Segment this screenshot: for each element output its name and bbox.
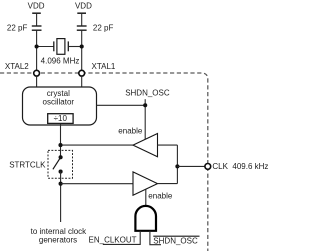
wire crystal right stub — [68, 46, 81, 48]
pin CLK circle — [205, 164, 211, 170]
crystal oscillator block text — [43, 89, 75, 106]
wire buffer U2 output to rail — [61, 144, 134, 146]
crystal Y1 left plate — [53, 41, 55, 51]
svg-text:VDD: VDD — [28, 1, 45, 10]
svg-text:CLK: CLK — [212, 162, 228, 171]
wire CLK to pin — [177, 165, 205, 167]
capacitor C2 plates — [77, 26, 87, 30]
svg-text:409.6 kHz: 409.6 kHz — [232, 162, 268, 171]
switch S1 top contact — [59, 155, 63, 159]
overbar for SHDN_OSC — [153, 235, 199, 237]
crystal Y1 right plate — [67, 41, 69, 51]
svg-text:22 pF: 22 pF — [93, 24, 114, 33]
wire oscillator SHDN to enable — [97, 99, 146, 139]
wire XTAL2 pin to oscillator block — [36, 76, 38, 87]
svg-text:enable: enable — [148, 191, 173, 200]
buffer U3 (points right) — [133, 172, 158, 195]
crystal Y1 body — [57, 39, 65, 55]
svg-text:22 pF: 22 pF — [7, 24, 28, 33]
svg-text:enable: enable — [118, 127, 143, 136]
svg-text:STRTCLK: STRTCLK — [9, 160, 46, 169]
node junction buffer U3 input tap — [59, 182, 63, 186]
wire label to internal clock generators — [31, 227, 88, 244]
switch S1 dashed enclosure — [48, 150, 73, 178]
pin XTAL1 circle — [79, 70, 85, 76]
svg-text:SHDN_OSC: SHDN_OSC — [125, 88, 170, 97]
svg-text:EN_CLKOUT: EN_CLKOUT — [89, 235, 137, 244]
svg-text:XTAL2: XTAL2 — [5, 62, 29, 71]
capacitor C1 plates — [32, 26, 42, 30]
svg-text:4.096 MHz: 4.096 MHz — [41, 56, 80, 65]
svg-text:SHDN_OSC: SHDN_OSC — [153, 236, 198, 245]
wire AND gate output to buffer U3 enable — [145, 190, 147, 207]
wire buffer U2 input — [158, 145, 178, 184]
divider block divide-by-10 — [48, 114, 73, 124]
wire C1 to XTAL2 pin — [36, 30, 38, 70]
node junction rail / buffer output — [58, 143, 62, 147]
svg-text:generators: generators — [39, 236, 77, 245]
AND gate G1 — [135, 206, 156, 231]
wire buffer U3 output — [158, 183, 178, 185]
node junction CLK tap — [175, 164, 179, 168]
crystal oscillator block U1 — [23, 87, 97, 125]
buffer U2 (points left) — [133, 134, 158, 157]
svg-text:VDD: VDD — [75, 1, 92, 10]
switch S1 arm — [53, 157, 61, 169]
wire VDD left to C1 — [36, 13, 38, 25]
node junction SHDN_OSC — [143, 103, 147, 107]
wire VDD right to C2 — [81, 13, 83, 25]
wire divider output rail — [60, 124, 62, 157]
switch S1 bottom contact — [59, 170, 63, 174]
pin XTAL2 circle — [34, 70, 40, 76]
svg-text:oscillator: oscillator — [43, 97, 75, 106]
chip boundary dashed line — [0, 73, 208, 251]
node junction left rail / crystal — [35, 44, 39, 48]
wire C2 to XTAL1 pin — [81, 30, 83, 70]
wire AND input EN_CLKOUT — [103, 231, 140, 245]
power VDD right bar symbol — [77, 12, 86, 14]
power VDD left bar symbol — [32, 12, 41, 14]
wire XTAL1 pin to oscillator block — [81, 76, 83, 87]
wire switch to internal clock generators — [60, 172, 62, 222]
wire crystal left stub — [37, 46, 54, 48]
wire AND input SHDN_OSC — [150, 231, 161, 245]
wire to buffer U3 input — [61, 183, 133, 185]
svg-text:XTAL1: XTAL1 — [92, 62, 116, 71]
svg-text:÷10: ÷10 — [54, 114, 68, 123]
node junction right rail / crystal — [80, 44, 84, 48]
